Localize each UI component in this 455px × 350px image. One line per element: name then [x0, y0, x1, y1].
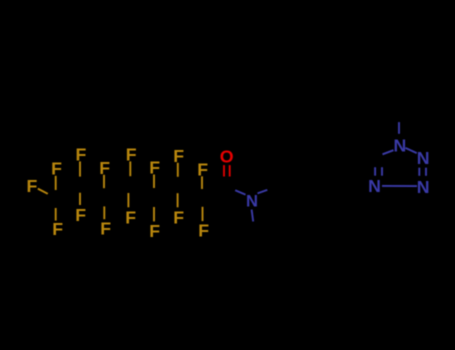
- svg-text:N: N: [417, 177, 430, 197]
- svg-text:F: F: [51, 159, 62, 179]
- svg-text:F: F: [125, 208, 136, 228]
- svg-text:F: F: [173, 146, 184, 166]
- svg-text:F: F: [173, 208, 184, 228]
- svg-text:N: N: [246, 191, 258, 210]
- svg-text:F: F: [75, 145, 86, 165]
- svg-text:F: F: [99, 158, 110, 178]
- svg-text:F: F: [26, 176, 37, 196]
- svg-text:F: F: [197, 160, 208, 180]
- svg-text:N: N: [394, 136, 407, 156]
- svg-text:F: F: [149, 221, 160, 241]
- svg-text:F: F: [126, 145, 137, 165]
- svg-text:F: F: [52, 219, 63, 239]
- svg-text:F: F: [198, 221, 209, 241]
- svg-text:F: F: [75, 205, 86, 225]
- svg-text:O: O: [220, 146, 234, 166]
- svg-text:F: F: [149, 158, 160, 178]
- svg-text:N: N: [368, 176, 381, 196]
- svg-text:N: N: [417, 148, 430, 168]
- svg-text:F: F: [100, 219, 111, 239]
